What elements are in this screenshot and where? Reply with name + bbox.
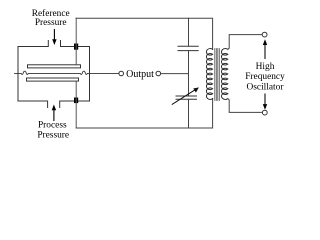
secondary bottom lead [228,99,263,113]
svg-text:Pressure: Pressure [35,18,67,28]
diaphragm [15,71,119,74]
bottom plate [27,78,79,81]
svg-text:High: High [256,62,275,72]
top feedthrough insulator [74,44,78,50]
transformer primary coil [206,49,212,100]
capacitor C plates [178,46,198,50]
output terminal left circle [119,71,124,76]
top plate [28,65,81,68]
sensor body [18,41,90,108]
top wire [76,18,212,49]
secondary top lead [228,35,262,50]
variable capacitor plates [176,96,197,99]
oscillator top arrow [264,44,266,59]
svg-text:Frequency: Frequency [245,72,285,82]
transformer secondary coil [221,49,227,100]
oscillator bottom arrow [264,94,266,105]
svg-text:Pressure: Pressure [37,130,69,140]
oscillator bottom terminal [262,110,267,115]
label: Reference Pressure [32,8,70,28]
variable capacitor bottom lead [188,99,190,128]
svg-text:Oscillator: Oscillator [247,82,285,92]
label: Process Pressure [37,121,69,141]
top plate lead wire [75,18,77,65]
wire between capacitors [188,51,190,96]
process pressure arrow [53,110,55,121]
output terminal right circle [156,71,161,76]
variable capacitor arrow [172,89,196,105]
svg-text:Process: Process [38,121,67,131]
svg-text:Output: Output [126,69,154,80]
capacitor C branch top lead [188,18,190,46]
transformer core [215,49,220,101]
bottom plate lead wire [75,81,77,128]
oscillator top terminal [262,32,267,37]
label: High Frequency Oscillator [245,62,285,93]
bottom feedthrough insulator [74,98,78,104]
output wire right [161,73,189,75]
reference pressure arrow [53,30,55,41]
bottom wire [76,99,212,128]
